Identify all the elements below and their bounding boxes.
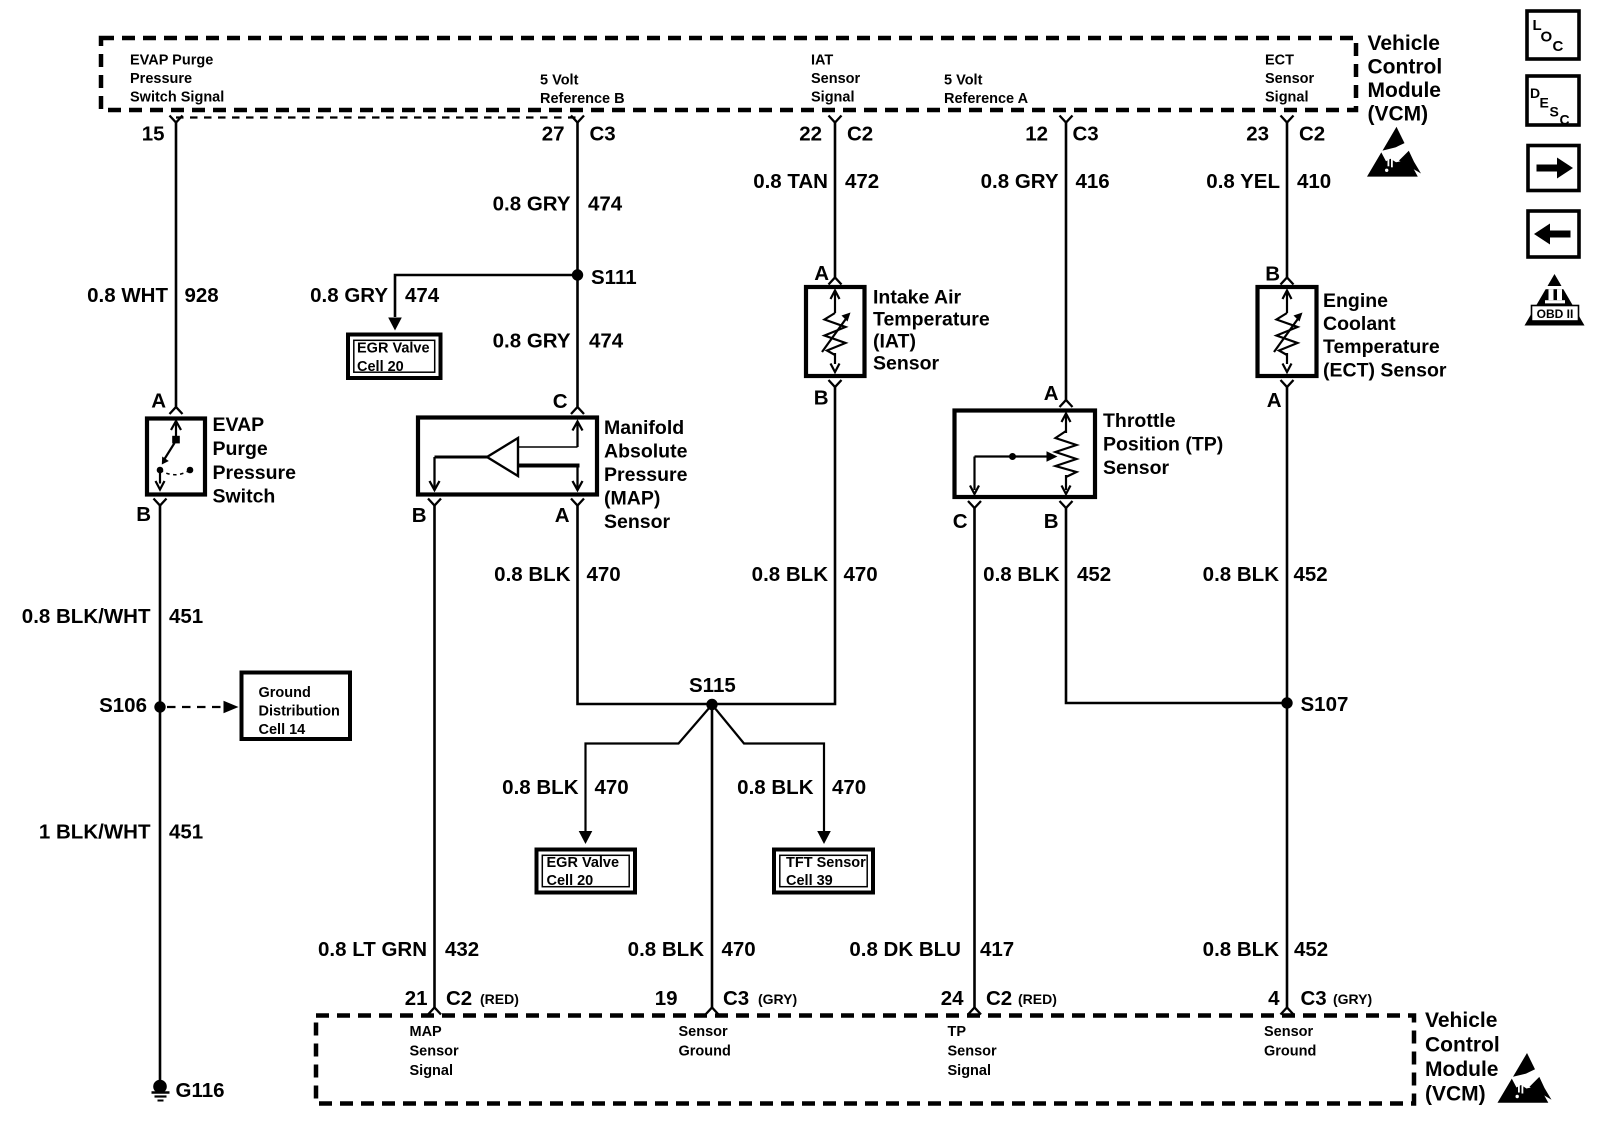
svg-text:Pressure: Pressure: [604, 464, 688, 486]
vehicle control module VCM bottom dashed box: [316, 1016, 1414, 1104]
svg-text:Sensor: Sensor: [1265, 71, 1315, 87]
svg-text:TP: TP: [948, 1024, 967, 1040]
pin 24 C2 RED label: [941, 987, 1057, 1010]
svg-text:Cell 14: Cell 14: [259, 722, 306, 738]
svg-text:0.8 GRY: 0.8 GRY: [981, 170, 1059, 193]
EVAP switch internal symbol: [156, 421, 194, 490]
svg-text:Engine: Engine: [1323, 290, 1388, 312]
svg-text:451: 451: [169, 821, 203, 844]
svg-text:C2: C2: [847, 123, 873, 146]
svg-text:Ground: Ground: [1264, 1044, 1316, 1060]
TFT Sensor Cell 39 reference box: [774, 850, 873, 893]
svg-text:1 BLK/WHT: 1 BLK/WHT: [39, 821, 151, 844]
svg-text:(IAT): (IAT): [873, 331, 916, 353]
arrow into TFT sensor reference: [817, 831, 831, 844]
ESD static sensitive symbol top right: [1367, 127, 1421, 177]
svg-text:928: 928: [185, 284, 219, 307]
svg-text:0.8 BLK: 0.8 BLK: [494, 563, 571, 586]
svg-text:417: 417: [980, 938, 1014, 961]
wire label 0.8 GRY 474 lower: [493, 330, 624, 353]
svg-text:470: 470: [832, 776, 866, 799]
svg-text:Sensor: Sensor: [679, 1024, 729, 1040]
net IAT Sensor Signal label: [811, 53, 861, 106]
pin 27 C3 label: [542, 123, 616, 146]
splice S111: [572, 269, 583, 280]
svg-text:470: 470: [595, 776, 629, 799]
svg-text:Cell 20: Cell 20: [357, 359, 404, 375]
svg-text:O: O: [1541, 29, 1553, 46]
svg-text:0.8 BLK: 0.8 BLK: [737, 776, 814, 799]
net TP Sensor Signal label: [948, 1024, 998, 1079]
svg-text:IAT: IAT: [811, 53, 833, 69]
svg-text:Sensor: Sensor: [604, 511, 671, 533]
pin 4 connector terminal: [1281, 1008, 1294, 1015]
pin 23 connector terminal: [1281, 116, 1294, 123]
svg-text:A: A: [555, 504, 570, 527]
TP sensor potentiometer symbol: [970, 414, 1077, 495]
svg-text:0.8 TAN: 0.8 TAN: [753, 170, 828, 193]
svg-text:Module: Module: [1425, 1058, 1499, 1081]
svg-text:Cell 39: Cell 39: [786, 873, 833, 889]
IAT sensor pin A terminal: [829, 278, 842, 285]
wire label 0.8 BLK 470 tft: [737, 776, 866, 799]
svg-text:0.8 BLK: 0.8 BLK: [1203, 563, 1280, 586]
wire label 0.8 WHT 928: [87, 284, 219, 307]
svg-text:(VCM): (VCM): [1368, 103, 1429, 126]
svg-text:(ECT) Sensor: (ECT) Sensor: [1323, 360, 1447, 382]
IAT sensor thermistor symbol: [822, 291, 851, 373]
svg-text:C: C: [1560, 112, 1570, 128]
svg-text:Ground: Ground: [259, 685, 311, 701]
svg-text:Ground: Ground: [679, 1044, 731, 1060]
svg-text:4: 4: [1268, 987, 1280, 1010]
MAP sensor internal amplifier symbol: [430, 422, 583, 491]
wire label 0.8 BLK/WHT 451: [22, 605, 203, 628]
svg-text:Signal: Signal: [410, 1063, 454, 1079]
svg-text:S107: S107: [1301, 693, 1349, 716]
svg-text:0.8 GRY: 0.8 GRY: [493, 193, 571, 216]
pin 21 C2 RED label: [405, 987, 519, 1010]
svg-text:0.8 YEL: 0.8 YEL: [1206, 170, 1280, 193]
svg-text:452: 452: [1294, 563, 1328, 586]
svg-text:0.8 BLK: 0.8 BLK: [628, 938, 705, 961]
svg-text:(RED): (RED): [1018, 991, 1057, 1007]
svg-text:Module: Module: [1368, 79, 1442, 102]
pin 22 C2 label: [799, 123, 873, 146]
svg-text:B: B: [1265, 263, 1280, 286]
svg-text:0.8 BLK: 0.8 BLK: [983, 563, 1060, 586]
wire label 0.8 YEL 410: [1206, 170, 1331, 193]
svg-text:Coolant: Coolant: [1323, 313, 1396, 335]
svg-text:5 Volt: 5 Volt: [540, 73, 579, 89]
svg-text:0.8 WHT: 0.8 WHT: [87, 284, 168, 307]
svg-text:Sensor: Sensor: [1264, 1024, 1314, 1040]
net MAP Sensor Signal label: [410, 1024, 460, 1079]
pin 12 connector terminal: [1060, 116, 1073, 123]
ESD static sensitive symbol bottom right: [1498, 1053, 1552, 1103]
IAT sensor name label: [873, 287, 990, 375]
net EVAP Purge Pressure Switch Signal label: [130, 53, 224, 106]
svg-text:B: B: [1044, 510, 1059, 533]
svg-text:Switch Signal: Switch Signal: [130, 90, 224, 106]
svg-text:S106: S106: [99, 694, 147, 717]
wire 928 WHT from pin 15 to EVAP switch pin A: [175, 123, 178, 407]
pin 23 C2 label: [1246, 123, 1325, 146]
svg-text:470: 470: [844, 563, 878, 586]
svg-text:A: A: [814, 262, 829, 285]
wire 451 BLK/WHT from EVAP switch B to G116: [159, 506, 162, 1082]
svg-text:12: 12: [1025, 123, 1048, 146]
svg-text:C2: C2: [986, 987, 1012, 1010]
pin 15 connector terminal: [170, 116, 183, 123]
svg-text:Sensor: Sensor: [811, 71, 861, 87]
EVAP Purge Pressure Switch name label: [213, 414, 297, 508]
Vehicle Control Module (VCM) bottom right label: [1425, 1009, 1500, 1106]
svg-text:ECT: ECT: [1265, 53, 1294, 69]
net Sensor Ground label right: [1264, 1024, 1316, 1060]
svg-text:TFT Sensor: TFT Sensor: [786, 855, 866, 871]
svg-text:Position (TP): Position (TP): [1103, 434, 1223, 456]
svg-text:C3: C3: [1301, 987, 1327, 1010]
pin 19 connector terminal: [706, 1008, 719, 1015]
wire label 0.8 GRY 474 branch: [310, 284, 440, 307]
svg-text:Temperature: Temperature: [1323, 336, 1440, 358]
svg-text:EGR Valve: EGR Valve: [357, 341, 430, 357]
DESC legend box: [1527, 76, 1579, 128]
svg-text:470: 470: [722, 938, 756, 961]
svg-text:(RED): (RED): [480, 991, 519, 1007]
svg-text:Vehicle: Vehicle: [1368, 32, 1440, 55]
svg-text:C2: C2: [1299, 123, 1325, 146]
wire 432 LT GRN from MAP pin B to pin 21: [433, 506, 436, 1008]
svg-text:B: B: [412, 504, 427, 527]
svg-text:451: 451: [169, 605, 203, 628]
svg-text:0.8 BLK: 0.8 BLK: [1203, 938, 1280, 961]
svg-text:A: A: [151, 390, 166, 413]
svg-text:(VCM): (VCM): [1425, 1083, 1486, 1106]
OBD II symbol: [1525, 274, 1585, 326]
pin 4 C3 GRY label: [1268, 987, 1372, 1010]
svg-text:(GRY): (GRY): [758, 991, 797, 1007]
svg-text:Sensor: Sensor: [948, 1044, 998, 1060]
forward arrow legend box: [1528, 146, 1579, 191]
TP sensor pin A terminal: [1060, 400, 1073, 407]
wire label 0.8 BLK 452 tp: [983, 563, 1111, 586]
wire label 0.8 TAN 472: [753, 170, 879, 193]
svg-text:Signal: Signal: [948, 1063, 992, 1079]
wire label 0.8 BLK 470 egr: [502, 776, 629, 799]
wire 470 BLK from MAP pin A to splice S115: [578, 506, 713, 705]
TP sensor pin C terminal: [968, 501, 981, 508]
svg-text:Vehicle: Vehicle: [1425, 1009, 1497, 1032]
svg-text:C: C: [1553, 38, 1564, 55]
svg-text:0.8 BLK/WHT: 0.8 BLK/WHT: [22, 605, 151, 628]
svg-text:Intake Air: Intake Air: [873, 287, 962, 309]
svg-text:C3: C3: [1073, 123, 1099, 146]
svg-text:E: E: [1540, 95, 1549, 111]
EGR Valve Cell 20 reference box lower: [537, 850, 636, 893]
ECT sensor pin B terminal: [1281, 278, 1294, 285]
EVAP switch pin B terminal: [154, 499, 167, 506]
svg-text:S: S: [1550, 104, 1559, 120]
wire label 0.8 GRY 416: [981, 170, 1110, 193]
svg-text:EVAP: EVAP: [213, 414, 265, 436]
svg-text:432: 432: [445, 938, 479, 961]
svg-text:Absolute: Absolute: [604, 441, 688, 463]
svg-text:474: 474: [588, 193, 623, 216]
svg-text:Manifold: Manifold: [604, 417, 684, 439]
svg-text:Reference A: Reference A: [944, 91, 1029, 107]
pin 22 connector terminal: [829, 116, 842, 123]
svg-text:(GRY): (GRY): [1333, 991, 1372, 1007]
arrow into EGR Valve lower reference: [579, 831, 593, 844]
pin 19 C3 GRY label: [655, 987, 797, 1010]
svg-text:C2: C2: [446, 987, 472, 1010]
wire label 1 BLK/WHT 451: [39, 821, 203, 844]
svg-text:Distribution: Distribution: [259, 704, 340, 720]
splice S107: [1281, 697, 1292, 708]
throttle position TP sensor box: [955, 411, 1096, 498]
pin 27 connector terminal: [571, 116, 584, 123]
svg-text:5 Volt: 5 Volt: [944, 73, 983, 89]
pin 21 connector terminal: [428, 1008, 441, 1015]
svg-text:MAP: MAP: [410, 1024, 443, 1040]
wire label 0.8 BLK 452 ect: [1203, 563, 1328, 586]
wire 470 BLK from IAT pin B to splice S115: [712, 387, 835, 704]
wire 470 BLK from S115 to pin 19 sensor ground: [711, 705, 714, 1008]
svg-text:EVAP Purge: EVAP Purge: [130, 53, 213, 69]
svg-text:EGR Valve: EGR Valve: [547, 855, 620, 871]
wire 474 GRY from pin 27 to MAP sensor pin C: [576, 123, 579, 407]
svg-text:452: 452: [1294, 938, 1328, 961]
svg-text:Sensor: Sensor: [410, 1044, 460, 1060]
svg-text:0.8 BLK: 0.8 BLK: [502, 776, 579, 799]
svg-text:A: A: [1044, 382, 1059, 405]
svg-text:452: 452: [1077, 563, 1111, 586]
MAP sensor pin A terminal: [571, 499, 584, 506]
wire 452 BLK from TP pin B to splice S107: [1066, 508, 1287, 703]
ECT sensor pin A terminal: [1281, 380, 1294, 387]
svg-text:24: 24: [941, 987, 964, 1010]
wire label 0.8 BLK 470 map: [494, 563, 621, 586]
net ECT Sensor Signal label: [1265, 53, 1315, 106]
svg-text:Purge: Purge: [213, 438, 268, 460]
Vehicle Control Module (VCM) top right label: [1368, 32, 1443, 126]
svg-text:470: 470: [587, 563, 621, 586]
svg-text:19: 19: [655, 987, 678, 1010]
pin 12 C3 label: [1025, 123, 1099, 146]
svg-text:Pressure: Pressure: [130, 71, 192, 87]
svg-text:22: 22: [799, 123, 822, 146]
vehicle control module VCM top dashed box: [101, 38, 1356, 110]
wire 410 YEL from pin 23 to ECT sensor pin B: [1286, 123, 1289, 278]
svg-text:15: 15: [142, 123, 165, 146]
wire label 0.8 DK BLU 417: [849, 938, 1014, 961]
splice S106: [154, 701, 165, 712]
svg-text:C: C: [553, 390, 568, 413]
wire branch 470 BLK from S115 to EGR Valve reference: [586, 707, 711, 831]
svg-text:416: 416: [1076, 170, 1110, 193]
arrow into EGR Valve reference: [388, 318, 402, 331]
wire label 0.8 BLK 470 ground: [628, 938, 756, 961]
wire label 0.8 GRY 474 upper: [493, 193, 623, 216]
manifold absolute pressure MAP sensor box: [418, 418, 597, 495]
MAP sensor name label: [604, 417, 688, 533]
svg-text:S111: S111: [591, 266, 637, 289]
svg-text:OBD II: OBD II: [1537, 307, 1574, 321]
svg-text:Control: Control: [1368, 56, 1443, 79]
svg-text:Pressure: Pressure: [213, 462, 297, 484]
wire label 0.8 BLK 470 iat: [752, 563, 878, 586]
svg-text:27: 27: [542, 123, 565, 146]
svg-text:(MAP): (MAP): [604, 488, 660, 510]
svg-text:Sensor: Sensor: [1103, 457, 1170, 479]
svg-text:410: 410: [1297, 170, 1331, 193]
svg-text:Cell 20: Cell 20: [547, 873, 594, 889]
svg-text:C: C: [953, 510, 968, 533]
svg-text:C3: C3: [723, 987, 749, 1010]
svg-text:G116: G116: [176, 1079, 225, 1102]
pin 24 connector terminal: [968, 1008, 981, 1015]
svg-text:0.8 BLK: 0.8 BLK: [752, 563, 829, 586]
splice S115: [706, 699, 717, 710]
dashed reference link from S106 to Ground Distribution: [167, 701, 239, 713]
net 5 Volt Reference A label: [944, 73, 1029, 108]
VCM internal connector dashed line pin15 to pin27: [176, 116, 578, 118]
net Sensor Ground label left: [679, 1024, 731, 1060]
svg-text:Control: Control: [1425, 1034, 1500, 1057]
svg-text:21: 21: [405, 987, 428, 1010]
svg-text:B: B: [814, 387, 829, 410]
ECT sensor name label: [1323, 290, 1447, 382]
wire 416 GRY from pin 12 to TP sensor pin A: [1065, 123, 1068, 401]
TP sensor pin B terminal: [1060, 501, 1073, 508]
wire label 0.8 LT GRN 432: [318, 938, 479, 961]
svg-text:474: 474: [589, 330, 624, 353]
svg-text:0.8 DK BLU: 0.8 DK BLU: [849, 938, 961, 961]
wire 472 TAN from pin 22 to IAT sensor pin A: [834, 123, 837, 278]
svg-text:Reference B: Reference B: [540, 91, 625, 107]
wire branch 474 GRY from S111 to EGR Valve reference: [395, 275, 578, 317]
MAP sensor pin B terminal: [428, 499, 441, 506]
svg-text:A: A: [1267, 389, 1282, 412]
TP sensor name label: [1103, 410, 1223, 479]
svg-text:B: B: [136, 503, 151, 526]
svg-text:Sensor: Sensor: [873, 353, 940, 375]
svg-text:472: 472: [845, 170, 879, 193]
wire label 0.8 BLK 452 ground: [1203, 938, 1329, 961]
svg-text:Signal: Signal: [1265, 90, 1309, 106]
ECT sensor thermistor symbol: [1274, 291, 1303, 373]
net 5 Volt Reference B label: [540, 73, 625, 108]
EVAP switch pin A terminal: [170, 407, 183, 414]
svg-text:Switch: Switch: [213, 486, 276, 508]
svg-text:0.8 GRY: 0.8 GRY: [493, 330, 571, 353]
EGR Valve Cell 20 reference box upper: [348, 335, 441, 379]
wire 452 BLK from ECT pin A to pin 4: [1286, 387, 1289, 1008]
MAP sensor pin C terminal: [571, 407, 584, 414]
intake air temperature IAT sensor box: [806, 287, 865, 376]
svg-text:Signal: Signal: [811, 90, 855, 106]
svg-text:S115: S115: [689, 674, 736, 697]
ground G116 symbol: [152, 1080, 170, 1101]
wire 417 DK BLU from TP pin C to pin 24: [973, 508, 976, 1008]
IAT sensor pin B terminal: [829, 380, 842, 387]
svg-text:Throttle: Throttle: [1103, 410, 1176, 432]
wire branch 470 BLK from S115 to TFT sensor reference: [714, 707, 824, 831]
svg-text:474: 474: [405, 284, 440, 307]
LOC legend box: [1527, 11, 1579, 59]
svg-text:0.8 GRY: 0.8 GRY: [310, 284, 388, 307]
svg-text:0.8 LT GRN: 0.8 LT GRN: [318, 938, 427, 961]
svg-text:23: 23: [1246, 123, 1269, 146]
svg-text:C3: C3: [590, 123, 616, 146]
svg-text:Temperature: Temperature: [873, 309, 990, 331]
Ground Distribution Cell 14 reference box: [242, 673, 351, 740]
EVAP purge pressure switch box: [147, 419, 205, 495]
back arrow legend box: [1528, 211, 1579, 257]
engine coolant temperature ECT sensor box: [1258, 287, 1317, 376]
